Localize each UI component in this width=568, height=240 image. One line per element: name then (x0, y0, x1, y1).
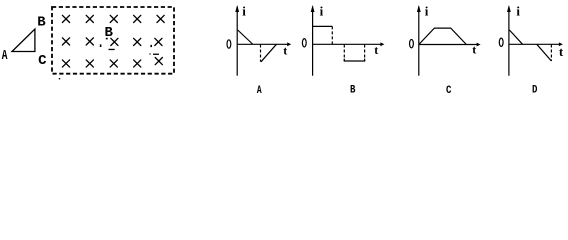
triangle loop ABC (12, 29, 35, 52)
magnetic field region (dashed boundary) (52, 7, 174, 74)
svg-text:A: A (257, 84, 262, 97)
svg-text:C: C (446, 85, 451, 97)
graph A horizontal axis (237, 43, 288, 45)
graph B waveform: dashed left edge of negative pulse (343, 45, 345, 62)
graph B waveform: positive pulse top (313, 25, 333, 27)
graph C waveform: trapezoidal pulse (419, 28, 467, 44)
flux cross r3c4 (134, 60, 141, 67)
graph B label 0 (302, 39, 306, 47)
graph D horizontal axis arrowhead (559, 42, 563, 46)
graph D waveform: dashed return (550, 45, 552, 62)
graph C label 0 (410, 39, 414, 47)
scan artifact comma near r2c3 (100, 44, 102, 47)
svg-text:i: i (242, 3, 246, 18)
svg-text:t: t (374, 43, 378, 57)
graph A vertical axis arrowhead (235, 5, 239, 12)
graph D waveform: positive ramp down (509, 30, 522, 44)
graph A vertical axis (236, 7, 238, 76)
graph D vertical axis (508, 7, 510, 76)
flux cross r2c1 (62, 38, 69, 45)
svg-text:t: t (283, 44, 287, 58)
svg-text:A: A (2, 47, 8, 63)
graph C horizontal axis arrowhead (477, 43, 481, 47)
flux cross r2c5 (155, 38, 162, 45)
graph D waveform: negative ramp down (537, 44, 552, 61)
scan artifact dot left of overline (149, 53, 150, 54)
graph A waveform: negative ramp up (261, 44, 277, 62)
flux cross r1c5 (157, 15, 164, 22)
flux cross r3c1 (62, 60, 69, 67)
flux cross r3c2 (86, 60, 93, 67)
svg-text:t: t (559, 44, 564, 59)
svg-text:B: B (37, 15, 46, 31)
svg-text:D: D (532, 85, 537, 97)
svg-text:B: B (350, 85, 355, 97)
graph B horizontal axis (313, 43, 381, 45)
flux cross r3c3 (110, 60, 117, 67)
graph D label 0 (499, 38, 503, 46)
scan artifact underline under r2c3 (109, 49, 115, 50)
flux cross r2c3 (111, 38, 118, 45)
graph B waveform: negative pulse bottom (344, 60, 366, 62)
graph B negative pulse corner stubs (344, 59, 364, 61)
svg-text:i: i (516, 3, 520, 18)
graph C vertical axis arrowhead (417, 5, 421, 12)
scan artifact comma near r2c5 (150, 45, 152, 47)
graph C horizontal axis (419, 44, 477, 46)
graph B vertical axis arrowhead (311, 5, 315, 12)
graph A waveform: positive ramp down (238, 30, 253, 44)
graph A waveform: dashed drop (260, 45, 262, 62)
graph D horizontal axis (509, 43, 560, 45)
graph D vertical axis arrowhead (507, 5, 511, 12)
artifact mark under field label (106, 38, 108, 40)
graph B vertical axis (312, 7, 314, 76)
svg-text:t: t (472, 42, 476, 56)
flux cross r1c4 (134, 15, 141, 22)
flux cross r3c5 (155, 58, 162, 65)
flux cross r1c2 (86, 15, 93, 22)
flux cross r1c3 (110, 15, 117, 22)
graph B waveform: dashed right edge of negative pulse (364, 45, 366, 62)
graph C vertical axis (418, 7, 420, 76)
svg-text:i: i (425, 3, 429, 18)
graph B horizontal axis arrowhead (380, 42, 384, 46)
svg-text:i: i (320, 3, 324, 18)
flux cross r2c2 (86, 38, 93, 45)
flux cross r1c1 (62, 15, 164, 67)
scan artifact dot below box (59, 78, 60, 79)
flux cross r2c4 (134, 38, 141, 45)
scan artifact overline near r3c5 (153, 54, 159, 55)
graph A horizontal axis arrowhead (287, 42, 291, 46)
graph A label 0 (227, 40, 231, 48)
graph B waveform: dashed right edge of positive pulse (331, 26, 333, 44)
svg-text:C: C (38, 53, 47, 69)
